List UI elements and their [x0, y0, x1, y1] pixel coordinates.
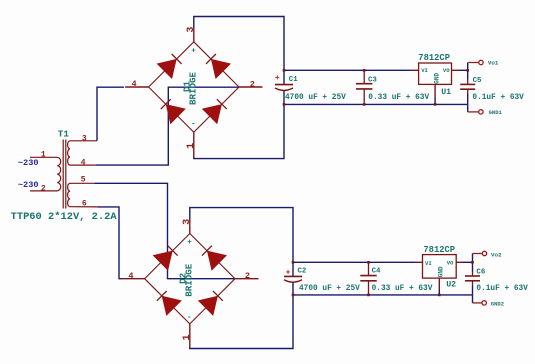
label D2 (rotated) [177, 273, 188, 284]
svg-text:T1: T1 [58, 129, 70, 140]
wire C2 minus to D2 pin1 return [190, 282, 293, 349]
wire T1 pin4 to D1 pin2 (pass-through) [96, 87, 239, 165]
D2 diode bottom-left [157, 291, 182, 316]
U2 GND pin name (rotated) [438, 266, 445, 277]
wire ground rail 2 drop to GND2 [472, 295, 474, 303]
wire U1 VO to node [459, 69, 468, 71]
label D1 (rotated) [181, 81, 192, 93]
wire C1 minus to D1 pin1 return [194, 91, 284, 159]
net label Vo1 [488, 60, 499, 67]
D2 pin 4 stub (ac) [121, 278, 145, 280]
D1 diode bottom-right [202, 99, 227, 124]
U1 GND pin name (rotated) [433, 73, 440, 84]
D2 diode top-right [202, 246, 227, 271]
svg-text:C4: C4 [372, 268, 381, 276]
U2 pin VO stub [456, 261, 462, 263]
svg-text:BRIDGE: BRIDGE [187, 71, 198, 105]
wire T1 pin6 to D2 pin4 [98, 207, 122, 279]
svg-text:0.1uF + 63V: 0.1uF + 63V [472, 94, 524, 102]
wire D2 plus rail to C2 [190, 208, 293, 277]
svg-text:2: 2 [41, 185, 46, 194]
svg-text:3: 3 [82, 134, 87, 143]
svg-text:1: 1 [186, 143, 197, 149]
pin 4 label D2 [128, 271, 133, 281]
D1 pin 4 stub (ac) [125, 86, 149, 88]
net label Vo2 [491, 251, 502, 258]
U1 pin GND stub [434, 84, 436, 104]
U2 VI pin name [425, 260, 432, 267]
U1 pin VI stub [411, 69, 419, 71]
label C3 [368, 76, 377, 84]
capacitor C4 [360, 276, 376, 281]
svg-text:7812CP: 7812CP [423, 245, 455, 255]
junction node C3/VI1 [363, 69, 366, 72]
net label ~230 (line input b) [18, 180, 39, 190]
bridge rectifier D2 body [145, 234, 235, 324]
D2 plus mark [187, 239, 192, 247]
D2 diode bottom-right [198, 291, 223, 316]
C3 value 0.33 uF + 63V [368, 94, 429, 102]
D1 diode bottom-left [161, 99, 186, 124]
C1 value 4700 uF + 25V [285, 94, 346, 102]
C4 value 0.33 uF + 63V [372, 285, 433, 293]
U2 pin GND stub [438, 278, 440, 295]
svg-text:C6: C6 [476, 268, 485, 276]
U2 VO pin name [447, 259, 454, 266]
D2 diode top-left [153, 246, 178, 271]
pin 4 label D1 [132, 79, 137, 89]
capacitor C3 lead [363, 70, 365, 104]
svg-text:~230: ~230 [18, 180, 39, 190]
D1 pin 3 stub (+) [193, 28, 195, 42]
capacitor C4 lead [368, 262, 370, 295]
transformer T1 core [63, 140, 66, 209]
wire node VO1 riser to Vo1 [467, 63, 469, 71]
U2 value 7812CP [423, 245, 455, 255]
wire node VO2 riser to Vo2 [472, 254, 474, 263]
svg-text:C1: C1 [289, 76, 298, 84]
wire C6 top lead wire [472, 262, 474, 271]
regulator U2 box [423, 255, 457, 279]
regulator U1 box [419, 63, 452, 84]
D1 diode top-left [157, 54, 182, 79]
transformer value TTP60 2*12V, 2.2A [11, 211, 118, 223]
wire T1 pin5 to D2 pin2 (pass-through) [95, 183, 235, 278]
svg-text:~230: ~230 [18, 158, 39, 168]
svg-text:3: 3 [186, 27, 197, 33]
terminal GND2 circle [482, 301, 486, 305]
terminal Vo1 wire [468, 62, 479, 64]
net label ~230 (line input a) [18, 158, 39, 168]
D1 pin 1 stub (-) [193, 132, 195, 157]
svg-text:1: 1 [182, 334, 193, 340]
terminal GND1 wire [468, 111, 479, 113]
transformer T1 secondary winding lower (pins 5-6) [68, 183, 98, 207]
wire T1 pin3 to D1 pin4 [97, 87, 124, 141]
D1 diode top-right [206, 54, 231, 79]
svg-text:0.33 uF + 63V: 0.33 uF + 63V [372, 285, 433, 293]
wire D1 plus rail to C1 [194, 17, 284, 85]
U1 pin VO stub [452, 69, 460, 71]
svg-text:0.1uF + 63V: 0.1uF + 63V [476, 285, 528, 293]
D2 pin 1 stub (-) [189, 324, 191, 349]
svg-text:U2: U2 [446, 281, 456, 290]
label BRIDGE D1 (rotated) [187, 71, 198, 105]
junction node U1 gnd/rail1 [434, 103, 437, 106]
pin 2 label T1 [41, 185, 46, 194]
capacitor C6 lead [472, 272, 474, 286]
label BRIDGE D2 (rotated) [183, 263, 194, 297]
capacitor C6 [465, 276, 480, 281]
svg-text:VI: VI [425, 260, 432, 267]
label T1 [58, 129, 70, 140]
junction node C2/gnd rail2 [292, 294, 295, 297]
pin 1 label D2 (rotated) [182, 334, 193, 340]
D1 minus mark [191, 121, 196, 129]
D1 pin 2 stub (ac) [239, 86, 263, 88]
D2 pin 2 stub (ac) [235, 278, 259, 280]
svg-text:1: 1 [41, 150, 46, 159]
label U2 [446, 281, 456, 290]
svg-text:+: + [286, 269, 291, 278]
svg-text:5: 5 [81, 176, 86, 185]
pin 1 label T1 [41, 150, 46, 159]
svg-text:Vo2: Vo2 [491, 251, 502, 258]
C5 value 0.1uF + 63V [472, 94, 524, 102]
wire C5 bottom lead wire [467, 94, 469, 105]
pin 1 label D1 (rotated) [186, 143, 197, 149]
wire node VI2 line C2 to U2 [293, 261, 415, 263]
junction node C1/VI1 [283, 69, 286, 72]
terminal GND2 wire [473, 302, 482, 304]
capacitor C5 [460, 84, 475, 89]
terminal Vo2 circle [482, 251, 486, 255]
svg-text:GND2: GND2 [491, 301, 504, 308]
D1 plus mark [191, 47, 196, 55]
terminal Vo1 circle [479, 60, 483, 64]
wire ground rail 2 [293, 294, 473, 296]
svg-text:4: 4 [81, 159, 86, 168]
svg-text:TTP60 2*12V, 2.2A: TTP60 2*12V, 2.2A [11, 211, 118, 223]
pin 3 label D2 (rotated) [182, 219, 193, 225]
svg-text:4: 4 [128, 271, 133, 281]
wire ground rail 1 [284, 103, 468, 105]
svg-text:Vo1: Vo1 [488, 60, 499, 67]
pin 3 label T1 [82, 134, 87, 143]
pin 5 label T1 [81, 176, 86, 185]
U1 VI pin name [421, 67, 428, 74]
svg-text:7812CP: 7812CP [418, 53, 450, 63]
svg-text:VO: VO [443, 67, 450, 74]
svg-text:+: + [191, 47, 196, 55]
junction node C2/VI2 [292, 261, 295, 264]
svg-text:+: + [275, 74, 280, 83]
label C6 [476, 268, 485, 276]
label U1 [441, 88, 451, 97]
svg-text:2: 2 [250, 79, 255, 89]
junction node C4/VI2 [367, 261, 370, 264]
pin 2 label D1 [250, 79, 255, 89]
svg-text:GND1: GND1 [489, 109, 503, 116]
capacitor C2 (polarized) [284, 276, 302, 282]
C2 value 4700 uF + 25V [299, 285, 360, 293]
svg-text:6: 6 [82, 200, 87, 209]
wire C6 bottom lead wire [472, 286, 474, 295]
pin 4 label T1 [81, 159, 86, 168]
svg-text:BRIDGE: BRIDGE [183, 263, 194, 297]
junction node U2 gnd/rail2 [438, 294, 441, 297]
wire C5 top lead wire [467, 70, 469, 79]
capacitor C3 [356, 84, 372, 89]
svg-text:4700 uF + 25V: 4700 uF + 25V [285, 94, 346, 102]
transformer T1 primary winding [30, 157, 61, 191]
U1 VO pin name [443, 67, 450, 74]
U2 pin VI stub [415, 261, 423, 263]
label C5 [473, 77, 482, 85]
svg-text:U1: U1 [441, 88, 451, 97]
svg-text:3: 3 [182, 219, 193, 225]
svg-text:4700 uF + 25V: 4700 uF + 25V [299, 285, 360, 293]
wire ground rail 1 drop to GND1 [467, 104, 469, 112]
svg-text:VI: VI [421, 67, 428, 74]
D2 pin 3 stub (+) [189, 220, 191, 234]
svg-text:C3: C3 [368, 76, 377, 84]
C6 value 0.1uF + 63V [476, 285, 528, 293]
label C2 [298, 268, 307, 276]
bridge rectifier D1 body [149, 42, 239, 132]
label C1 [289, 76, 298, 84]
svg-text:GND: GND [433, 73, 440, 84]
terminal Vo2 wire [473, 253, 483, 255]
pin 3 label D1 (rotated) [186, 27, 197, 33]
C1 plus mark [275, 74, 280, 83]
net label GND1 [489, 109, 503, 116]
svg-text:VO: VO [447, 259, 454, 266]
pin 6 label T1 [82, 200, 87, 209]
capacitor C1 (polarized) [275, 85, 293, 91]
U1 value 7812CP [418, 53, 450, 63]
C2 plus mark [286, 269, 291, 278]
svg-text:-: - [187, 314, 192, 322]
label C4 [372, 268, 381, 276]
svg-text:GND: GND [438, 266, 445, 277]
net label GND2 [491, 301, 504, 308]
svg-text:2: 2 [245, 271, 250, 281]
svg-text:0.33 uF + 63V: 0.33 uF + 63V [368, 94, 429, 102]
D2 minus mark [187, 314, 192, 322]
junction node VO1/C5 [466, 69, 469, 72]
capacitor C5 lead [467, 80, 469, 94]
transformer T1 secondary winding upper (pins 3-4) [68, 141, 97, 165]
svg-text:4: 4 [132, 79, 137, 89]
wire node VI1 line C1 to U1 [284, 69, 411, 71]
svg-text:C5: C5 [473, 77, 482, 85]
wire U2 VO to node [463, 261, 473, 263]
junction node C3/gnd rail1 [363, 103, 366, 106]
svg-text:-: - [191, 121, 196, 129]
svg-text:C2: C2 [298, 268, 307, 276]
junction node C4/gnd rail2 [367, 294, 370, 297]
svg-text:+: + [187, 239, 192, 247]
junction node VO2/C6 [471, 261, 474, 264]
pin 2 label D2 [245, 271, 250, 281]
junction node C1/gnd rail1 [283, 103, 286, 106]
terminal GND1 circle [479, 110, 483, 114]
